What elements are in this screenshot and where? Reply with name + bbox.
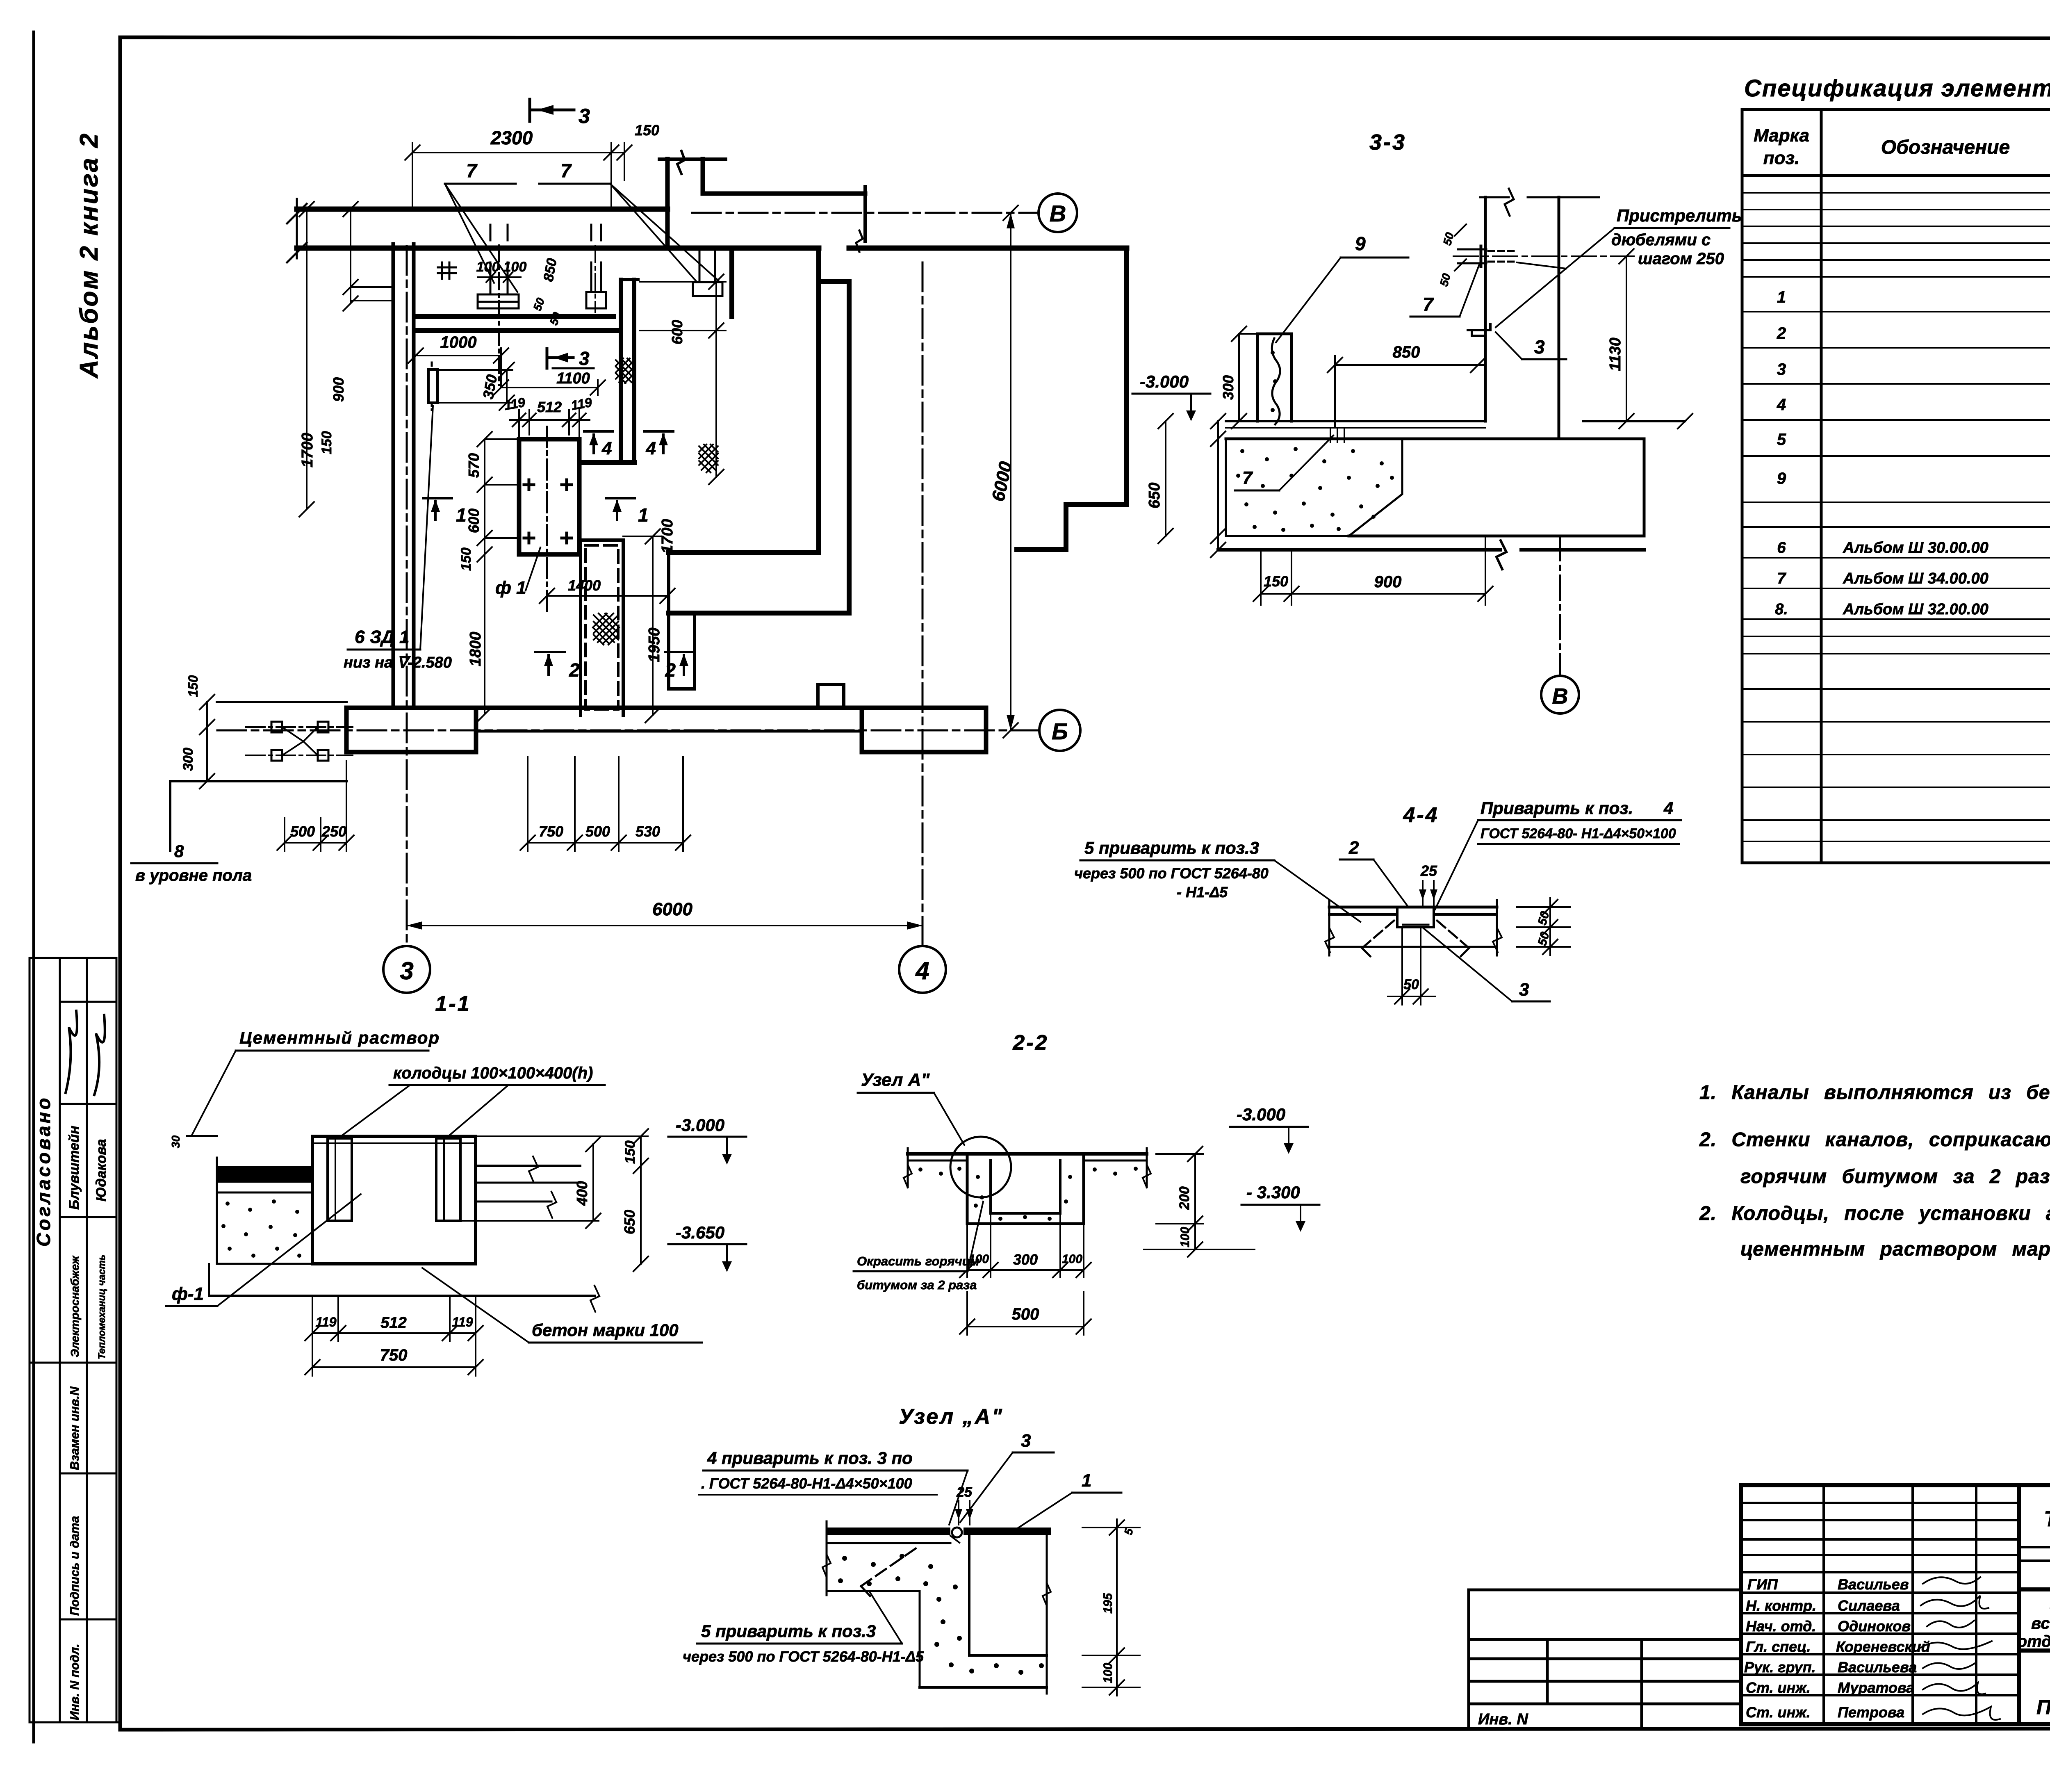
title block frame — [1741, 1485, 2050, 1724]
sheet frame — [120, 37, 2050, 39]
dims 100 300 100 — [966, 1224, 968, 1277]
svg-text:7: 7 — [1423, 294, 1434, 315]
dotted concrete 2-2 — [918, 1167, 1138, 1221]
svg-text:Муратова: Муратова — [1838, 1679, 1914, 1696]
svg-text:Марка: Марка — [1754, 125, 1809, 146]
svg-text:1: 1 — [638, 504, 649, 526]
hatch mark in room — [438, 262, 456, 279]
svg-text:-3.000: -3.000 — [676, 1115, 724, 1135]
wall band axis В top line — [297, 207, 667, 212]
svg-text:Петрова: Петрова — [1838, 1704, 1904, 1721]
svg-text:1. Каналы выполняются из б: 1. Каналы выполняются из бетона марки 10… — [1699, 1082, 2050, 1103]
dim 6000 bottom — [407, 925, 922, 926]
dims 119 512 119 — [312, 1296, 313, 1376]
anchor plate right in room — [693, 282, 722, 296]
axis Б dash-dot — [217, 730, 1038, 732]
right room left wall — [816, 248, 821, 552]
svg-text:низ на ∇-2.580: низ на ∇-2.580 — [344, 654, 452, 671]
svg-text:7: 7 — [560, 160, 572, 181]
axis Б wall band — [346, 708, 476, 752]
svg-text:5: 5 — [1777, 431, 1786, 449]
dim chain 600 1700 right of channel — [715, 282, 717, 477]
dowel top on wall — [1458, 249, 1486, 251]
anchor plate left in room — [478, 294, 519, 302]
svg-text:Узел „А": Узел „А" — [899, 1405, 1004, 1429]
svg-text:Альбом 2 книга 2: Альбом 2 книга 2 — [75, 132, 103, 379]
svg-text:цементным раствором марки: цементным раствором марки 100. — [1740, 1238, 2050, 1260]
dim 400 rotated — [592, 1144, 594, 1221]
channel body — [312, 1136, 476, 1264]
svg-text:1100: 1100 — [556, 370, 590, 387]
svg-text:512: 512 — [537, 399, 562, 415]
svg-text:1: 1 — [456, 504, 467, 526]
dim 750 500 530 — [528, 842, 683, 844]
svg-text:1700: 1700 — [659, 519, 676, 554]
svg-text:Тепломеханиц часть: Тепломеханиц часть — [96, 1254, 107, 1359]
channel wall step — [919, 1591, 921, 1655]
dim 750 — [312, 1366, 476, 1368]
svg-text:Окрасить горячим: Окрасить горячим — [857, 1254, 979, 1268]
svg-text:300: 300 — [180, 748, 196, 771]
dashed hooks — [1362, 921, 1394, 948]
wall band left end ticks — [296, 199, 298, 258]
floor-level anchor assembly left — [217, 701, 346, 703]
svg-text:7: 7 — [1242, 468, 1253, 488]
svg-text:4-4: 4-4 — [1403, 803, 1439, 827]
axis 4 dash-dot — [922, 262, 924, 946]
svg-text:250: 250 — [321, 823, 346, 840]
footing right — [1559, 438, 1644, 440]
svg-text:Альбом Ш 30.00.00: Альбом Ш 30.00.00 — [1843, 539, 1988, 556]
svg-text:ф 1: ф 1 — [495, 578, 526, 598]
svg-text:В: В — [1050, 201, 1066, 226]
svg-text:50: 50 — [1403, 977, 1419, 992]
floor right of wall — [1583, 420, 1685, 422]
svg-text:ф-1: ф-1 — [172, 1284, 204, 1304]
left dim chain 900 150 — [350, 209, 351, 303]
svg-text:3: 3 — [1021, 1431, 1031, 1451]
axis 4 circle — [899, 946, 946, 993]
svg-text:бетон марки 100: бетон марки 100 — [532, 1320, 679, 1340]
svg-text:750: 750 — [380, 1346, 408, 1364]
U channel — [966, 1154, 969, 1224]
svg-text:9: 9 — [1355, 233, 1366, 254]
dim 850 — [1335, 364, 1485, 366]
svg-text:горячим битумом за 2 раза: горячим битумом за 2 раза. — [1740, 1166, 2050, 1188]
channel piece — [1397, 907, 1434, 927]
dim chain 150 650 — [640, 1136, 642, 1264]
upper-left channel room bottom wall — [415, 314, 614, 319]
svg-text:1130: 1130 — [1607, 337, 1624, 371]
svg-text:600: 600 — [669, 320, 686, 344]
svg-text:Альбом Ш 32.00.00: Альбом Ш 32.00.00 — [1843, 601, 1988, 618]
svg-text:8.: 8. — [1775, 601, 1788, 618]
hatch blob on notch wall — [699, 445, 718, 472]
svg-text:ГОСТ 5264-80- Н1-Δ4×50×100: ГОСТ 5264-80- Н1-Δ4×50×100 — [1481, 826, 1676, 841]
vertical channel wall pair below room — [619, 280, 623, 463]
foundation Ф1 — [519, 439, 579, 554]
svg-text:850: 850 — [1393, 343, 1420, 361]
svg-text:6 ЗД 1: 6 ЗД 1 — [355, 627, 409, 647]
svg-text:Цементный раствор: Цементный раствор — [239, 1028, 440, 1047]
title block signatures — [1921, 1577, 2000, 1720]
dim 200 100 — [1194, 1154, 1196, 1249]
svg-text:119: 119 — [315, 1315, 336, 1329]
svg-text:4: 4 — [646, 438, 656, 458]
spec header texts — [1754, 125, 2050, 168]
svg-text:570: 570 — [465, 453, 482, 478]
svg-text:6000: 6000 — [652, 899, 692, 919]
svg-text:25: 25 — [956, 1484, 973, 1500]
svg-text:900: 900 — [1374, 573, 1402, 591]
svg-text:150: 150 — [622, 1140, 638, 1164]
svg-text:300: 300 — [1220, 375, 1237, 400]
svg-text:-3.000: -3.000 — [1140, 372, 1189, 391]
bottom line — [1329, 946, 1497, 948]
svg-text:4: 4 — [915, 957, 929, 985]
ground line — [1218, 548, 1501, 552]
svg-text:отдельно стоящее, заглубленн: отдельно стоящее, заглубленное — [2017, 1632, 2050, 1651]
svg-text:1950: 1950 — [646, 627, 663, 662]
dim 500 — [967, 1326, 1084, 1327]
svg-text:150: 150 — [186, 675, 200, 697]
svg-text:Пристрелить: Пристрелить — [1617, 206, 1742, 225]
marker 4 right — [645, 430, 673, 433]
marker Т1 left — [423, 497, 452, 499]
axis В dash-dot — [692, 212, 1036, 214]
weld leader node — [950, 1536, 959, 1543]
svg-text:2. Колодцы, после установки: 2. Колодцы, после установки анкерных бол… — [1699, 1203, 2050, 1224]
svg-text:3: 3 — [1777, 360, 1786, 378]
slab lines — [908, 1152, 1147, 1156]
svg-text:Рук. груп.: Рук. груп. — [1744, 1659, 1816, 1676]
svg-text:25: 25 — [1420, 862, 1437, 879]
axis 3 circle — [383, 946, 430, 993]
svg-text:1-1: 1-1 — [435, 992, 471, 1016]
left sub-table of title block — [1469, 1590, 1741, 1729]
svg-text:1700: 1700 — [299, 433, 316, 467]
svg-text:600: 600 — [465, 508, 482, 533]
svg-text:4: 4 — [1777, 396, 1786, 414]
left strip signature 1 — [66, 1011, 77, 1093]
svg-text:150: 150 — [458, 547, 474, 571]
dim 500 250 — [285, 842, 346, 844]
svg-text:3: 3 — [1534, 336, 1545, 358]
svg-text:дюбелями с: дюбелями с — [1611, 231, 1711, 249]
svg-text:6: 6 — [1777, 539, 1786, 556]
svg-text:-3.000: -3.000 — [1237, 1105, 1285, 1124]
svg-text:Васильев: Васильев — [1838, 1576, 1909, 1593]
spec table grid — [1742, 109, 2050, 863]
svg-text:- 3.300: - 3.300 — [1246, 1183, 1300, 1202]
svg-text:3-3: 3-3 — [1369, 130, 1406, 155]
left strip table — [30, 958, 120, 1722]
svg-text:5 приварить к поз.3: 5 приварить к поз.3 — [701, 1621, 876, 1641]
hatch blob — [593, 613, 619, 645]
svg-text:1: 1 — [1777, 288, 1786, 306]
svg-text:650: 650 — [1146, 483, 1163, 508]
svg-text:Узел А": Узел А" — [861, 1070, 930, 1090]
svg-text:9: 9 — [1777, 470, 1786, 488]
svg-text:200: 200 — [1177, 1186, 1192, 1210]
vertical dim 6000 — [1010, 213, 1011, 730]
channel column with dashed liner — [579, 540, 582, 715]
svg-text:2300: 2300 — [490, 127, 533, 148]
dowel lower hook — [1468, 324, 1490, 336]
svg-text:1: 1 — [1082, 1471, 1091, 1491]
svg-text:2: 2 — [1777, 324, 1786, 342]
title block personnel labels — [1744, 1576, 1930, 1721]
svg-text:4: 4 — [1663, 798, 1673, 818]
svg-text:2. Стенки каналов, соприкас: 2. Стенки каналов, соприкасающиеся с гру… — [1699, 1129, 2050, 1151]
axis В circle — [1039, 194, 1077, 232]
wall break top — [1480, 196, 1509, 198]
axis Б circle — [1039, 710, 1080, 751]
svg-text:4 приварить к поз. 3 по: 4 приварить к поз. 3 по — [707, 1448, 913, 1468]
dim 300 150 rotated left — [206, 702, 208, 781]
dim 350 — [506, 370, 508, 403]
svg-text:3: 3 — [400, 957, 413, 985]
concrete block dotted — [1226, 439, 1402, 536]
svg-text:100: 100 — [968, 1252, 989, 1266]
svg-text:150: 150 — [635, 122, 659, 139]
svg-text:ГИП: ГИП — [1747, 1576, 1778, 1593]
dims 150 900 — [1260, 550, 1262, 605]
wall lines — [1484, 197, 1487, 421]
svg-text:Ст. инж.: Ст. инж. — [1746, 1679, 1811, 1696]
svg-text:Гл. спец.: Гл. спец. — [1746, 1638, 1811, 1655]
right floor lines — [476, 1165, 580, 1167]
svg-text:Ст. инж.: Ст. инж. — [1746, 1704, 1811, 1721]
bottom dim 50 — [1401, 927, 1403, 1005]
svg-text:900: 900 — [330, 377, 347, 402]
svg-text:Подпись и дата: Подпись и дата — [68, 1516, 82, 1616]
svg-text:через 500 по ГОСТ 5264-80-Н1-Δ: через 500 по ГОСТ 5264-80-Н1-Δ5 — [683, 1648, 924, 1665]
slab bottom line — [827, 1542, 950, 1544]
svg-text:3: 3 — [579, 348, 590, 369]
svg-text:1000: 1000 — [440, 333, 477, 351]
svg-text:150: 150 — [1264, 573, 1288, 590]
right dims узел — [1082, 1527, 1140, 1528]
upper-left channel room right wall — [729, 248, 734, 317]
svg-text:вспомогательного назначения: вспомогательного назначения — [2031, 1614, 2050, 1632]
dash-dot through middle plate — [594, 246, 596, 312]
svg-text:Силаева: Силаева — [1838, 1597, 1900, 1614]
band notches — [669, 687, 695, 691]
embedded door ЗД1 in left wall — [428, 369, 437, 403]
dim 119 512 119 — [510, 419, 590, 421]
svg-text:Инв. N подл.: Инв. N подл. — [68, 1644, 82, 1720]
plate lines — [1329, 906, 1497, 909]
svg-text:Н. контр.: Н. контр. — [1746, 1597, 1816, 1614]
svg-text:битумом за 2 раза: битумом за 2 раза — [857, 1278, 977, 1292]
dim 1950 — [652, 536, 654, 715]
left concrete dotted — [217, 1192, 312, 1264]
upper wall stub above В — [665, 159, 670, 248]
svg-text:- Н1-Δ5: - Н1-Δ5 — [1177, 884, 1228, 901]
svg-text:Нач. отд.: Нач. отд. — [1746, 1618, 1816, 1635]
svg-text:5 приварить к поз.3: 5 приварить к поз.3 — [1084, 838, 1259, 857]
marker 2 right — [665, 651, 695, 653]
svg-text:2: 2 — [569, 659, 580, 681]
svg-text:119: 119 — [452, 1315, 473, 1329]
left strip signature 2 — [94, 1015, 105, 1095]
floor slab lines — [1226, 420, 1485, 422]
left channel wall pair — [392, 244, 395, 708]
sheet outer cut line left — [32, 32, 35, 1742]
marker 2 left — [535, 651, 565, 653]
marker 4 left — [584, 430, 613, 433]
axis and circle В section — [1559, 536, 1561, 675]
wall band axis В bottom line — [297, 246, 819, 251]
upper floor wall edge right — [703, 192, 865, 196]
svg-text:530: 530 — [635, 823, 660, 840]
right dims 50 50 — [1517, 906, 1570, 908]
svg-text:8: 8 — [174, 841, 184, 861]
kolodets slots — [328, 1138, 352, 1221]
svg-text:2: 2 — [1348, 838, 1359, 858]
anchor plate middle in room — [586, 292, 606, 308]
svg-text:Одиноков: Одиноков — [1838, 1618, 1911, 1635]
svg-text:7: 7 — [466, 160, 478, 181]
svg-text:100: 100 — [1062, 1252, 1082, 1266]
svg-text:100: 100 — [503, 259, 527, 275]
svg-text:В: В — [1552, 684, 1568, 709]
notes — [1699, 1082, 2050, 1260]
svg-text:Спецификация элементов к схе: Спецификация элементов к схеме расположе… — [1744, 75, 2050, 102]
svg-text:4: 4 — [601, 438, 612, 458]
plates — [827, 1528, 950, 1535]
dim 300 rotated — [1238, 334, 1240, 421]
svg-text:Инв. N: Инв. N — [1478, 1711, 1528, 1728]
svg-text:Васильева: Васильева — [1838, 1659, 1917, 1676]
svg-text:400: 400 — [574, 1181, 590, 1206]
svg-text:3: 3 — [579, 105, 590, 128]
concrete upper block — [827, 1590, 920, 1592]
svg-text:Подпольные каналы.: Подпольные каналы. — [2036, 1696, 2050, 1719]
svg-text:3: 3 — [1519, 980, 1529, 1000]
svg-text:Электроснабжеж: Электроснабжеж — [68, 1255, 81, 1357]
svg-text:Кореневский: Кореневский — [1836, 1638, 1930, 1655]
svg-text:через 500 по ГОСТ 5264-80: через 500 по ГОСТ 5264-80 — [1074, 865, 1269, 882]
marker 1 right — [606, 497, 635, 499]
section marker 3 top — [528, 99, 531, 121]
svg-text:7: 7 — [1777, 570, 1786, 587]
Ф1 left dim chain 570 600 150 — [484, 439, 485, 714]
bottom slab — [209, 1295, 594, 1297]
svg-text:в уровне пола: в уровне пола — [135, 866, 252, 885]
right room right wall — [1124, 248, 1129, 504]
svg-text:1800: 1800 — [467, 632, 484, 666]
channel upstand wall — [1256, 334, 1259, 421]
hatch blob on channel wall — [616, 358, 635, 383]
svg-text:500: 500 — [290, 823, 315, 840]
left floor slab dark band — [217, 1166, 312, 1183]
svg-text:512: 512 — [380, 1314, 406, 1331]
section marker 3 1100 — [546, 349, 549, 368]
svg-text:Б: Б — [1052, 718, 1068, 744]
svg-text:2-2: 2-2 — [1012, 1031, 1048, 1055]
svg-text:500: 500 — [585, 823, 610, 840]
dim 1130 rotated — [1626, 256, 1627, 421]
svg-text:. ГОСТ 5264-80-Н1-Δ4×50×100: . ГОСТ 5264-80-Н1-Δ4×50×100 — [701, 1475, 912, 1492]
svg-text:-3.650: -3.650 — [676, 1223, 724, 1242]
svg-text:Альбом Ш 34.00.00: Альбом Ш 34.00.00 — [1843, 570, 1988, 587]
svg-text:Т. П. А -П, Ш, IV - 450 -320,: Т. П. А -П, Ш, IV - 450 -320, 86 — [2044, 1507, 2050, 1531]
axis 3 dash-dot — [406, 246, 408, 946]
svg-text:Юдакова: Юдакова — [93, 1139, 109, 1202]
svg-text:Обозначение: Обозначение — [1881, 137, 2010, 158]
svg-text:150: 150 — [319, 431, 335, 454]
svg-text:шагом 250: шагом 250 — [1638, 250, 1724, 268]
svg-text:300: 300 — [1013, 1251, 1038, 1268]
dash-dot through left plate — [498, 245, 500, 385]
svg-text:30: 30 — [169, 1135, 182, 1148]
svg-text:100: 100 — [1178, 1227, 1192, 1247]
svg-text:500: 500 — [1012, 1305, 1039, 1323]
svg-text:поз.: поз. — [1763, 148, 1799, 168]
svg-text:колодцы 100×100×400(h): колодцы 100×100×400(h) — [393, 1064, 593, 1082]
left dim chain 1700 — [306, 209, 307, 509]
svg-text:195: 195 — [1101, 1593, 1115, 1614]
svg-text:Согласовано: Согласовано — [33, 1096, 54, 1247]
dim 2300 — [412, 152, 624, 153]
dim 650 rotated — [1165, 421, 1166, 536]
dashed anchor diagonal — [861, 1548, 916, 1586]
svg-text:Блувштейн: Блувштейн — [66, 1126, 82, 1210]
callout circle — [950, 1137, 1011, 1197]
svg-text:750: 750 — [539, 823, 563, 840]
dim 1000 — [416, 355, 501, 356]
svg-text:Приварить к поз.: Приварить к поз. — [1481, 798, 1633, 818]
svg-text:Взамен инв.N: Взамен инв.N — [68, 1386, 82, 1470]
svg-text:650: 650 — [621, 1210, 638, 1234]
svg-text:100: 100 — [1101, 1663, 1115, 1683]
dim 1400 — [547, 595, 667, 597]
